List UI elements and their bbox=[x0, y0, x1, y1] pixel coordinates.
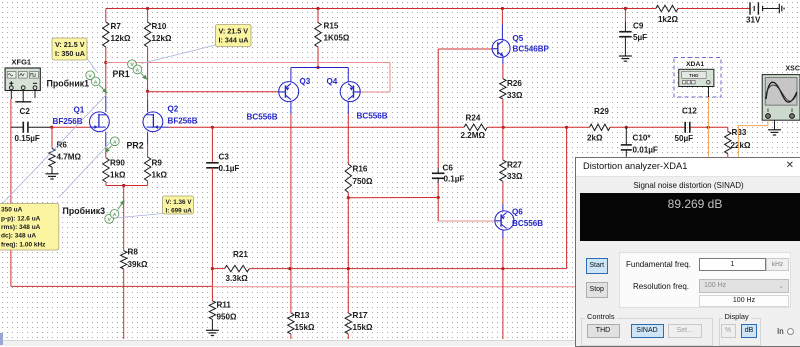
capacitor C6 bbox=[432, 172, 445, 174]
transistor Q4 BC556B PNP bbox=[340, 82, 360, 102]
svg-text:R27: R27 bbox=[507, 161, 522, 170]
lead C9 bottom bbox=[624, 37, 626, 56]
wire Q2 source to R9 bbox=[147, 144, 149, 157]
wire to R33 bbox=[727, 127, 729, 131]
svg-text:31V: 31V bbox=[746, 16, 761, 25]
svg-text:p-p): 12.6 uA: p-p): 12.6 uA bbox=[1, 215, 41, 222]
wire pink vertical bbox=[389, 63, 391, 93]
ground XFG1 common bar bbox=[15, 101, 31, 103]
wire R90-R9 junction bbox=[106, 185, 148, 187]
lead R9 bottom bbox=[147, 181, 149, 186]
svg-text:15kΩ: 15kΩ bbox=[353, 323, 374, 332]
wire output net vertical bbox=[566, 127, 568, 268]
wire Q6 emitter to net bbox=[502, 238, 504, 269]
wire rail to R7 bbox=[105, 9, 107, 23]
wire R13 to edge bbox=[290, 334, 292, 339]
svg-text:Q2: Q2 bbox=[168, 105, 179, 114]
svg-text:12kΩ: 12kΩ bbox=[111, 34, 132, 43]
wire Q4 emitter lead bbox=[347, 102, 349, 114]
svg-text:1K05Ω: 1K05Ω bbox=[324, 34, 350, 43]
wire Q3 emitter lead bbox=[290, 102, 292, 114]
node R21 left bbox=[211, 267, 214, 270]
wire bridge to Q4 bbox=[347, 68, 349, 82]
lead R90 bottom bbox=[105, 182, 107, 186]
wire R8 down to edge bbox=[123, 269, 125, 339]
lead C2 left bbox=[11, 126, 23, 128]
node C6 bottom bbox=[437, 196, 440, 199]
lead R11 to ground bbox=[211, 319, 213, 330]
wire Q2 source lead bbox=[147, 132, 149, 144]
resistor R8 bbox=[121, 251, 127, 269]
svg-text:750Ω: 750Ω bbox=[353, 177, 374, 186]
svg-text:R16: R16 bbox=[353, 165, 368, 174]
svg-text:0.01µF: 0.01µF bbox=[633, 146, 658, 155]
wire Q6 emitter lead bbox=[502, 230, 504, 238]
wire rail to R10 bbox=[147, 9, 149, 23]
node C10 tap bbox=[625, 126, 628, 129]
resistor R33 bbox=[725, 131, 731, 154]
svg-text:R11: R11 bbox=[217, 301, 232, 310]
wire Q3-Q4 collector bridge bbox=[291, 67, 348, 69]
svg-text:1kΩ: 1kΩ bbox=[110, 171, 126, 180]
probe PR2 bbox=[108, 146, 111, 149]
tooltip PR1 V/I bbox=[216, 25, 252, 47]
lead R21 left bbox=[212, 268, 224, 270]
callout line tooltip1 bbox=[87, 58, 98, 72]
pin XFG1 + bbox=[10, 90, 12, 99]
resistor R29 bbox=[590, 124, 611, 130]
node Q2 drain bbox=[146, 90, 149, 93]
svg-text:BC556B: BC556B bbox=[512, 219, 543, 228]
resistor R90 bbox=[103, 158, 109, 182]
transistor Q1 BF256B JFET bbox=[90, 112, 110, 132]
node Q1 drain bbox=[104, 61, 107, 64]
wire Q2 drain lead bbox=[147, 100, 149, 112]
wire feedback line left part bbox=[169, 126, 465, 128]
svg-text:R7: R7 bbox=[111, 22, 122, 31]
svg-text:15kΩ: 15kΩ bbox=[295, 323, 316, 332]
wire Q3 emitter down bbox=[290, 114, 292, 269]
svg-text:R33: R33 bbox=[732, 128, 747, 137]
probe Пробник3 bbox=[118, 204, 122, 210]
resistor R6 bbox=[49, 149, 55, 168]
wire C6 node down bbox=[437, 198, 439, 222]
wire bottom net bbox=[249, 268, 566, 270]
wire C2 to Q1 gate bbox=[52, 126, 90, 128]
lead R6 to ground bbox=[51, 167, 53, 174]
svg-text:1kΩ: 1kΩ bbox=[152, 171, 168, 180]
svg-text:12kΩ: 12kΩ bbox=[152, 34, 173, 43]
wire to R13 bbox=[290, 269, 292, 313]
svg-text:C2: C2 bbox=[20, 107, 31, 116]
svg-text:V: 1.36 V: V: 1.36 V bbox=[166, 199, 193, 206]
svg-text:I: 350 uA: I: 350 uA bbox=[55, 49, 85, 58]
svg-text:33Ω: 33Ω bbox=[507, 91, 523, 100]
node C2-R6-Q1gate bbox=[50, 126, 53, 129]
wire node to R27 bbox=[502, 127, 504, 160]
svg-text:BC556B: BC556B bbox=[247, 113, 278, 122]
wire XSC channel to output (orange) bbox=[738, 120, 768, 157]
svg-text:R17: R17 bbox=[353, 311, 368, 320]
wire XFG1 + down left side bbox=[10, 99, 12, 286]
ground R6 bbox=[46, 173, 59, 175]
wire R26 to node bbox=[502, 99, 504, 127]
wire to C3 bbox=[211, 127, 213, 163]
wire Q5 base down to C6 bbox=[437, 49, 439, 168]
wire top +31V rail bbox=[106, 8, 656, 10]
wire XSC ground lead bbox=[774, 120, 776, 129]
wire Q1 source to R90 bbox=[105, 146, 107, 158]
node rail-Q5 collector bbox=[501, 7, 504, 10]
svg-text:Q1: Q1 bbox=[74, 106, 85, 115]
svg-text:R90: R90 bbox=[110, 159, 125, 168]
ground C9 bbox=[619, 55, 632, 57]
wire R24 to R29 bbox=[487, 126, 589, 128]
svg-text:4.7MΩ: 4.7MΩ bbox=[57, 153, 82, 162]
node R16-C6 bbox=[347, 196, 350, 199]
svg-text:C12: C12 bbox=[682, 107, 697, 116]
svg-text:Q6: Q6 bbox=[512, 208, 523, 217]
tooltip probe3 V/I bbox=[163, 196, 194, 214]
svg-text:C3: C3 bbox=[219, 153, 230, 162]
svg-text:XDA1: XDA1 bbox=[686, 61, 704, 68]
wire to R11 bbox=[211, 269, 213, 301]
svg-text:V: 21.5 V: V: 21.5 V bbox=[55, 40, 85, 49]
resistor R27 bbox=[500, 160, 506, 181]
transistor Q5 BC546BP NPN bbox=[492, 39, 510, 57]
node rail-C9 bbox=[624, 7, 627, 10]
wire rail to C9 bbox=[624, 9, 626, 23]
wire node to Q2 bbox=[147, 91, 149, 100]
svg-text:0.1µF: 0.1µF bbox=[219, 164, 240, 173]
wire node to R8 bbox=[123, 186, 125, 251]
node R16-R17 bbox=[347, 267, 350, 270]
resistor R9 bbox=[144, 157, 150, 181]
transistor Q3 BC556B PNP bbox=[279, 82, 299, 102]
wire rail to Q5 bbox=[501, 9, 503, 25]
wire Q6 emitter down to edge bbox=[502, 269, 504, 339]
wire R29 to C12 bbox=[610, 126, 685, 128]
probe PR1 bbox=[141, 73, 144, 76]
node C3 top bbox=[211, 126, 214, 129]
wire rail to R15 bbox=[317, 9, 319, 23]
wire Q5 emitter to R26 bbox=[502, 64, 504, 79]
wire R15 to Q3/Q4 bridge bbox=[317, 47, 319, 68]
wire to R17 bbox=[347, 269, 349, 313]
resistor R17 bbox=[345, 313, 351, 334]
resistor R24 bbox=[464, 124, 487, 130]
svg-text:rms): 348 uA: rms): 348 uA bbox=[1, 224, 41, 231]
tooltip probe1 V/I bbox=[52, 38, 87, 60]
wire R7 to node bbox=[105, 47, 107, 63]
wire bridge to Q3 bbox=[290, 68, 292, 82]
ground battery (rotated) bbox=[778, 4, 780, 14]
svg-text:R29: R29 bbox=[594, 107, 609, 116]
transistor Q6 BC556B PNP bbox=[495, 211, 514, 230]
capacitor C12 bbox=[684, 122, 686, 133]
svg-text:0.15µF: 0.15µF bbox=[15, 134, 40, 143]
svg-text:2.2MΩ: 2.2MΩ bbox=[461, 131, 486, 140]
transistor Q2 BF256B JFET bbox=[143, 112, 163, 132]
wire Q5 emitter lead bbox=[502, 57, 504, 64]
svg-text:1k2Ω: 1k2Ω bbox=[658, 15, 679, 24]
svg-text:Q4: Q4 bbox=[327, 77, 338, 86]
wire Q6 collector lead bbox=[502, 204, 504, 211]
svg-text:R9: R9 bbox=[152, 159, 163, 168]
tooltip probe1 expanded bbox=[0, 204, 59, 251]
wire Q5 collector lead bbox=[501, 24, 503, 40]
svg-text:R13: R13 bbox=[295, 311, 310, 320]
svg-text:XFG1: XFG1 bbox=[12, 58, 32, 67]
svg-text:950Ω: 950Ω bbox=[217, 313, 238, 322]
lead R16 bottom bbox=[347, 192, 349, 197]
svg-text:Пробник1: Пробник1 bbox=[47, 79, 90, 89]
wire C3 to bottom net bbox=[211, 168, 213, 269]
wire Q1 source lead bbox=[105, 132, 107, 146]
wire R27 to Q6 bbox=[502, 181, 504, 204]
node R26-R27 bbox=[502, 126, 505, 129]
svg-text:Пробник3: Пробник3 bbox=[63, 206, 106, 216]
svg-text:I: 344 uA: I: 344 uA bbox=[219, 36, 249, 45]
wire to Q6 base bbox=[438, 220, 495, 222]
pin XFG1 common bbox=[22, 90, 24, 102]
svg-text:R10: R10 bbox=[152, 22, 167, 31]
wire R16 to bottom net bbox=[347, 198, 349, 269]
ground R11 bbox=[206, 329, 219, 331]
lead C6 top bbox=[437, 168, 439, 173]
svg-text:0.1µF: 0.1µF bbox=[444, 175, 465, 184]
lead C10 bottom bbox=[625, 150, 627, 157]
wire Q1 drain lead bbox=[105, 96, 107, 112]
wire Q5 base bbox=[438, 48, 492, 50]
svg-text:freq): 1.00 kHz: freq): 1.00 kHz bbox=[1, 241, 46, 248]
svg-text:C10*: C10* bbox=[633, 134, 652, 143]
svg-text:Q3: Q3 bbox=[300, 77, 311, 86]
resistor R13 bbox=[288, 313, 294, 334]
node sources to R8 bbox=[122, 184, 125, 187]
resistor R21 bbox=[225, 265, 250, 271]
resistor R15 bbox=[315, 23, 321, 48]
svg-text:R8: R8 bbox=[128, 248, 139, 257]
wire R17 to edge bbox=[347, 334, 349, 339]
svg-text:V: 21.5 V: V: 21.5 V bbox=[219, 26, 249, 35]
svg-text:22kΩ: 22kΩ bbox=[731, 141, 752, 150]
svg-text:39kΩ: 39kΩ bbox=[128, 260, 149, 269]
callout line big tooltip bbox=[2, 95, 107, 205]
wire R16 node to C6 node bbox=[348, 197, 438, 199]
node to output net bbox=[565, 126, 568, 129]
wire input bottom rail bbox=[11, 285, 213, 287]
ground XSC bbox=[768, 129, 781, 131]
node Q3col-R13 bbox=[288, 267, 291, 270]
wire Q4 emitter down bbox=[347, 114, 349, 164]
node rail-R15 bbox=[316, 7, 319, 10]
wire C12 to R33 bbox=[690, 126, 727, 128]
node bridge bbox=[316, 66, 319, 69]
capacitor C9 bbox=[619, 31, 632, 33]
wire bottom net pink bbox=[212, 286, 575, 288]
svg-text:C9: C9 bbox=[633, 22, 644, 31]
wire XDA1 to output node (orange) bbox=[708, 97, 710, 157]
wire Q1 drain to Q4 base (pink) horizontal bbox=[106, 62, 390, 64]
wire R10 to Q2 drain node bbox=[147, 47, 149, 91]
callout line big tooltip to PR2 bbox=[59, 143, 110, 198]
resistor R11 bbox=[209, 301, 215, 320]
pin XFG1 - bbox=[34, 90, 36, 98]
wire R33 down bbox=[727, 154, 729, 157]
svg-text:C6: C6 bbox=[443, 164, 454, 173]
node rail-R10 bbox=[146, 7, 149, 10]
svg-text:dc): 348 uA: dc): 348 uA bbox=[1, 233, 36, 240]
wire Q2 gate stub bbox=[163, 126, 169, 128]
wire rail right of 1k2 bbox=[678, 8, 750, 10]
svg-text:I: 699 uA: I: 699 uA bbox=[166, 207, 193, 214]
wire battery to ground bbox=[763, 8, 780, 10]
svg-text:PR1: PR1 bbox=[113, 69, 130, 79]
resistor R10 bbox=[144, 22, 150, 47]
svg-text:R26: R26 bbox=[507, 79, 522, 88]
svg-text:3.3kΩ: 3.3kΩ bbox=[226, 274, 249, 283]
instrument XDA1 distortion analyzer icon bbox=[674, 58, 721, 98]
svg-text:33Ω: 33Ω bbox=[507, 172, 523, 181]
svg-text:THD: THD bbox=[689, 73, 699, 78]
wire node to R6 bbox=[51, 127, 53, 148]
wire C6 to node bbox=[437, 183, 439, 198]
svg-text:Q5: Q5 bbox=[513, 34, 524, 43]
lead C10 top bbox=[625, 127, 627, 145]
svg-text:50µF: 50µF bbox=[675, 134, 694, 143]
svg-text:2kΩ: 2kΩ bbox=[587, 134, 603, 143]
lead C2 right bbox=[28, 126, 52, 128]
capacitor C3 bbox=[206, 162, 219, 164]
svg-text:R21: R21 bbox=[233, 250, 248, 259]
callout line tooltip3 bbox=[115, 214, 163, 219]
svg-text:PR2: PR2 bbox=[127, 141, 144, 151]
lead C6 bottom bbox=[437, 178, 439, 183]
pin XDA1 bbox=[708, 87, 710, 98]
window Distortion analyzer-XDA1 bbox=[575, 157, 800, 347]
node XDA1 tap bbox=[707, 126, 710, 129]
probe Пробник1 bbox=[99, 85, 104, 90]
capacitor C2 bbox=[22, 122, 24, 133]
lead C9 top bbox=[624, 22, 626, 32]
battery V1 31V bbox=[749, 2, 751, 14]
node Q6 emitter bbox=[501, 267, 504, 270]
svg-text:BC546BP: BC546BP bbox=[513, 45, 550, 54]
svg-text:5µF: 5µF bbox=[633, 33, 647, 42]
capacitor C10* bbox=[621, 144, 632, 146]
bottom scrollbar strip bbox=[0, 340, 576, 347]
svg-text:BF256B: BF256B bbox=[168, 117, 198, 126]
callout line tooltip2 bbox=[142, 45, 216, 64]
svg-text:XSC: XSC bbox=[786, 66, 800, 73]
wire Q2 drain to Q3 base bbox=[148, 91, 279, 93]
resistor R7 bbox=[103, 22, 109, 47]
resistor R16 bbox=[345, 164, 351, 192]
wire pink to Q4 base bbox=[360, 91, 390, 93]
wire node to Q1 drain bbox=[105, 63, 107, 97]
svg-text:R15: R15 bbox=[324, 22, 339, 31]
resistor R26 bbox=[500, 79, 506, 99]
svg-text:350 uA: 350 uA bbox=[1, 207, 23, 214]
resistor 1k2 bbox=[656, 5, 678, 11]
svg-text:BC556B: BC556B bbox=[357, 112, 388, 121]
function generator XFG1 icon bbox=[5, 68, 40, 91]
svg-text:R24: R24 bbox=[466, 114, 481, 123]
